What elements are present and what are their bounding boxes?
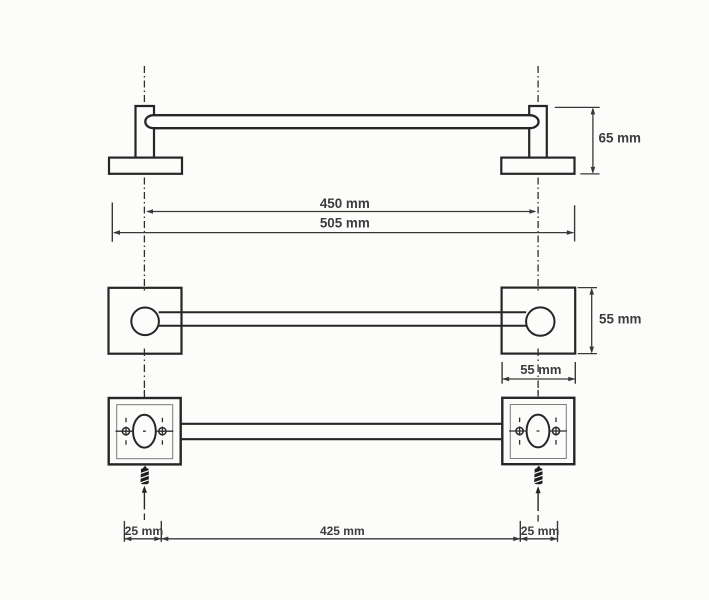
bottom dimension tick 1 (123, 521, 125, 542)
centerline tick bottom right square (537, 349, 539, 399)
centerline right mid section (537, 178, 539, 293)
bottom dimension tick 3 (519, 521, 521, 542)
right screw pointer arrow (537, 492, 539, 512)
dimension 55 mm vertical extension lines (578, 288, 597, 354)
bottom dimension tick 4 (557, 521, 559, 542)
centerline tick bottom left square (143, 349, 145, 399)
dimension 55 mm vertical line (591, 289, 593, 352)
dimension 55 mm horizontal tick left (501, 362, 503, 384)
towel bar (front view) (159, 312, 527, 326)
left screw hole B (159, 428, 166, 435)
dimension 450 mm arrows (146, 209, 536, 214)
svg-text:65 mm: 65 mm (599, 130, 642, 145)
right plate crosshair verticals (520, 418, 556, 445)
svg-text:425 mm: 425 mm (320, 524, 365, 538)
left square plate (front view) (109, 288, 182, 354)
dimension 55 mm horizontal tick right (574, 362, 576, 384)
right mounting plate inner (510, 405, 566, 459)
dimension 55 mm horizontal arrows (502, 377, 575, 382)
dimension 505 mm tick left (111, 203, 113, 242)
left mounting plate outer (back view) (109, 398, 181, 464)
left bar boss circle (front view) (131, 308, 159, 336)
dimension 65 mm line (592, 109, 594, 173)
dimension 505 mm line (114, 232, 574, 234)
left wall post (side view) (136, 106, 155, 158)
left flange plate (side view) (109, 158, 182, 174)
right mounting plate outer (back view) (502, 398, 574, 464)
dimension 65 mm arrows (591, 107, 596, 173)
left wall anchor screw (140, 466, 148, 485)
dimension 25 mm right line (520, 538, 557, 540)
left plate horizontal centerline (116, 430, 174, 432)
dimension 425 mm line (161, 538, 520, 540)
right square plate (front view) (502, 288, 576, 354)
svg-text:505 mm: 505 mm (320, 215, 370, 230)
centerline right top view (537, 66, 539, 105)
left plate crosshair verticals (126, 418, 162, 445)
dimension 450 mm line (148, 211, 536, 213)
right wall post (side view) (529, 106, 547, 158)
right screw hole A (516, 427, 523, 434)
right plate horizontal centerline (509, 430, 567, 432)
svg-text:450 mm: 450 mm (320, 196, 370, 211)
centerline left top view (143, 66, 145, 105)
dimension 55 mm vertical arrows (589, 288, 594, 354)
left keyhole ellipse (133, 415, 156, 448)
right keyhole ellipse (527, 415, 550, 448)
right flange plate (side view) (501, 158, 574, 174)
dimension 55 mm horizontal line (503, 378, 574, 380)
dimension 505 mm tick right (574, 205, 576, 241)
centerline tick top left plate (143, 390, 145, 397)
dimension 25 mm left line (124, 538, 161, 540)
left screw pointer arrow (143, 491, 145, 510)
bottom dimension tick 2 (160, 521, 162, 542)
right bar boss circle (front view) (526, 307, 554, 335)
right screw hole B (552, 427, 559, 434)
centerline left mid section (143, 178, 145, 293)
centerline tick top right plate (537, 390, 539, 397)
dimension 65 mm extension lines (555, 107, 600, 173)
svg-text:25 mm: 25 mm (521, 524, 560, 538)
dimension 505 mm arrows (113, 230, 574, 235)
towel bar (back view) (181, 424, 503, 439)
towel bar (side view) (145, 115, 538, 128)
svg-text:55 mm: 55 mm (599, 311, 642, 326)
left screw hole A (122, 428, 129, 435)
svg-text:25 mm: 25 mm (125, 524, 164, 538)
svg-text:55 mm: 55 mm (520, 362, 561, 377)
right wall anchor screw (534, 466, 542, 485)
left mounting plate inner (117, 405, 173, 459)
